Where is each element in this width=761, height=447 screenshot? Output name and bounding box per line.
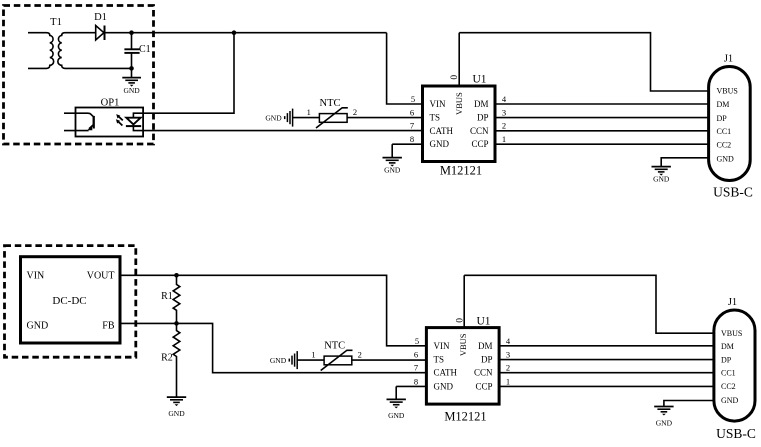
connector J1 pin names [717,87,738,164]
svg-text:6: 6 [410,108,414,118]
svg-text:J1: J1 [728,297,737,308]
svg-text:VIN: VIN [434,341,450,351]
svg-text:CCN: CCN [470,126,489,136]
diode D1 [96,26,105,41]
svg-text:1: 1 [502,134,506,144]
svg-text:DM: DM [717,100,730,109]
IC U1 lower right pin names [474,341,493,392]
svg-text:GND: GND [388,411,405,420]
svg-text:1: 1 [307,107,311,117]
ground: U1 pin8 [383,144,402,174]
ground: lower U1 pin8 [387,386,406,420]
wire: VOUT rail to U1 VIN [120,275,426,346]
ground: J1 GND [652,158,709,184]
IC U1 right pin numbers [502,94,507,144]
resistor R2 [173,323,180,397]
svg-text:CATH: CATH [430,126,454,136]
svg-text:GND: GND [434,381,454,391]
connector J1 USB-C body [709,67,751,181]
svg-text:GND: GND [721,396,739,405]
wire: lower pin8 stub [396,385,426,387]
svg-text:GND: GND [656,418,673,427]
optocoupler OP1 phototransistor [64,113,94,130]
svg-text:VOUT: VOUT [87,271,115,282]
svg-text:CC2: CC2 [721,382,736,391]
svg-text:7: 7 [414,363,418,373]
optocoupler OP1 LED [126,113,143,130]
wire: FB to divider and U1 CATH [120,323,426,372]
transformer T1 secondary winding [58,33,132,69]
wire: lower NTC pin2 to U1 TS [352,359,427,361]
wire: OP1 emitter to U1 CATH [143,130,422,132]
optocoupler OP1 box [76,108,144,137]
svg-text:GND: GND [270,356,287,365]
svg-text:CC1: CC1 [717,127,732,136]
wire: lower U1 CCP to J1 CC2 [499,385,714,387]
svg-text:0: 0 [455,318,465,323]
svg-text:GND: GND [653,174,670,183]
svg-text:DM: DM [474,99,489,109]
IC U1 lower VBUS pin wire [463,275,465,327]
resistor R1 [173,275,180,323]
svg-text:CATH: CATH [434,368,458,378]
node: FB / divider junction [174,321,179,326]
wire: rail down to U1 VIN [387,33,423,104]
ground: below R2 [167,397,186,418]
IC U1 box [423,86,496,162]
wire: OP1 collector to rail [143,33,234,114]
svg-text:USB-C: USB-C [716,426,756,441]
node: rail / C1 junction [129,30,134,35]
svg-text:C1: C1 [139,44,151,55]
IC U1 lower right pin numbers [506,336,511,387]
svg-text:VBUS: VBUS [454,92,464,115]
svg-text:3: 3 [502,108,506,118]
svg-text:VIN: VIN [27,271,45,282]
wire: GND to lower NTC pin1 [297,359,324,361]
IC U1 right pin names [470,99,489,149]
svg-text:GND: GND [717,155,735,164]
svg-text:CCP: CCP [471,139,488,149]
node: rail / OP1 branch junction [232,30,237,35]
svg-text:3: 3 [506,350,510,360]
ground: NTC bias (rotated) [265,109,292,127]
svg-text:NTC: NTC [320,98,341,109]
svg-text:GND: GND [430,139,450,149]
svg-text:USB-C: USB-C [713,185,753,200]
svg-text:U1: U1 [472,74,486,86]
svg-text:GND: GND [168,409,185,418]
node: VOUT / R1 junction [174,273,179,278]
ground: lower J1 GND [654,401,714,428]
svg-text:DC-DC: DC-DC [52,295,86,307]
svg-text:NTC: NTC [324,341,345,352]
svg-text:2: 2 [502,121,506,131]
svg-text:GND: GND [27,320,49,331]
wire: lower U1 CCN to J1 CC1 [499,372,714,374]
wire: U1 CCP to J1 CC2 [495,143,709,145]
svg-text:DP: DP [717,114,728,123]
svg-text:T1: T1 [50,17,62,28]
svg-text:DM: DM [721,342,734,351]
svg-text:TS: TS [434,355,445,365]
dashed box: flyback stage [4,6,154,145]
IC U1 lower left pin numbers [414,336,419,387]
svg-text:5: 5 [411,94,415,104]
svg-text:U1: U1 [476,316,490,328]
dashed box: DC-DC stage [5,246,136,358]
svg-text:8: 8 [414,376,418,386]
wire: U1 CCN to J1 CC1 [495,130,709,132]
transformer T1 primary winding [28,33,54,69]
thermistor NTC lower [321,350,353,370]
svg-text:0: 0 [450,75,460,80]
svg-text:TS: TS [430,113,441,123]
IC U1 left pin numbers [410,94,415,144]
thermistor NTC [316,108,348,128]
IC U1 VBUS pin wire [458,33,460,86]
svg-text:7: 7 [410,121,414,131]
ground: below C1 [122,68,141,94]
wire: U1 DM to J1 DM [495,103,709,105]
svg-text:CCP: CCP [475,381,492,391]
wire: GND to NTC pin1 [293,117,320,119]
svg-text:8: 8 [410,134,414,144]
svg-text:2: 2 [353,107,357,117]
wire: lower U1 DP to J1 DP [499,359,714,361]
svg-text:GND: GND [384,165,401,174]
svg-text:M12121: M12121 [444,410,486,424]
svg-text:R2: R2 [161,353,173,364]
svg-text:VBUS: VBUS [717,87,738,96]
IC U1 lower box [426,328,499,405]
optocoupler OP1 light arrows [116,114,123,125]
DC-DC converter box [21,257,121,343]
connector J1 lower USB-C body [714,310,755,421]
svg-text:DP: DP [721,355,732,364]
svg-text:GND: GND [123,86,140,95]
svg-text:DM: DM [478,341,493,351]
svg-text:D1: D1 [94,12,107,23]
svg-text:VBUS: VBUS [721,329,742,338]
wire: lower VBUS rail to J1 [464,275,714,333]
svg-text:1: 1 [311,350,315,360]
svg-text:J1: J1 [724,54,733,65]
svg-text:R1: R1 [161,291,173,302]
svg-text:GND: GND [265,113,282,122]
svg-text:5: 5 [415,336,419,346]
IC U1 left pin names [430,99,454,149]
svg-text:2: 2 [506,363,510,373]
svg-text:1: 1 [506,376,510,386]
wire: rectified rail [105,32,387,34]
svg-text:2: 2 [358,350,362,360]
ground: NTC bias lower (rotated) [270,351,297,369]
svg-text:VBUS: VBUS [458,333,468,356]
svg-text:DP: DP [481,355,493,365]
svg-text:CCN: CCN [474,368,493,378]
capacitor C1 [124,33,139,69]
svg-text:CC1: CC1 [721,369,736,378]
svg-text:DP: DP [477,113,489,123]
wire: pin8 stub [392,143,422,145]
wire: VBUS rail to J1 [459,33,708,91]
svg-text:6: 6 [414,350,418,360]
wire: U1 DP to J1 DP [495,117,709,119]
svg-text:FB: FB [102,320,115,331]
connector J1 lower pin names [721,329,742,405]
IC U1 lower left pin names [434,341,458,392]
wire: lower U1 DM to J1 DM [499,345,714,347]
svg-text:M12121: M12121 [440,164,482,178]
svg-text:CC2: CC2 [717,140,732,149]
wire: NTC pin2 to U1 TS [347,117,422,119]
node: C1 bottom junction [129,66,134,71]
svg-text:VIN: VIN [430,99,446,109]
